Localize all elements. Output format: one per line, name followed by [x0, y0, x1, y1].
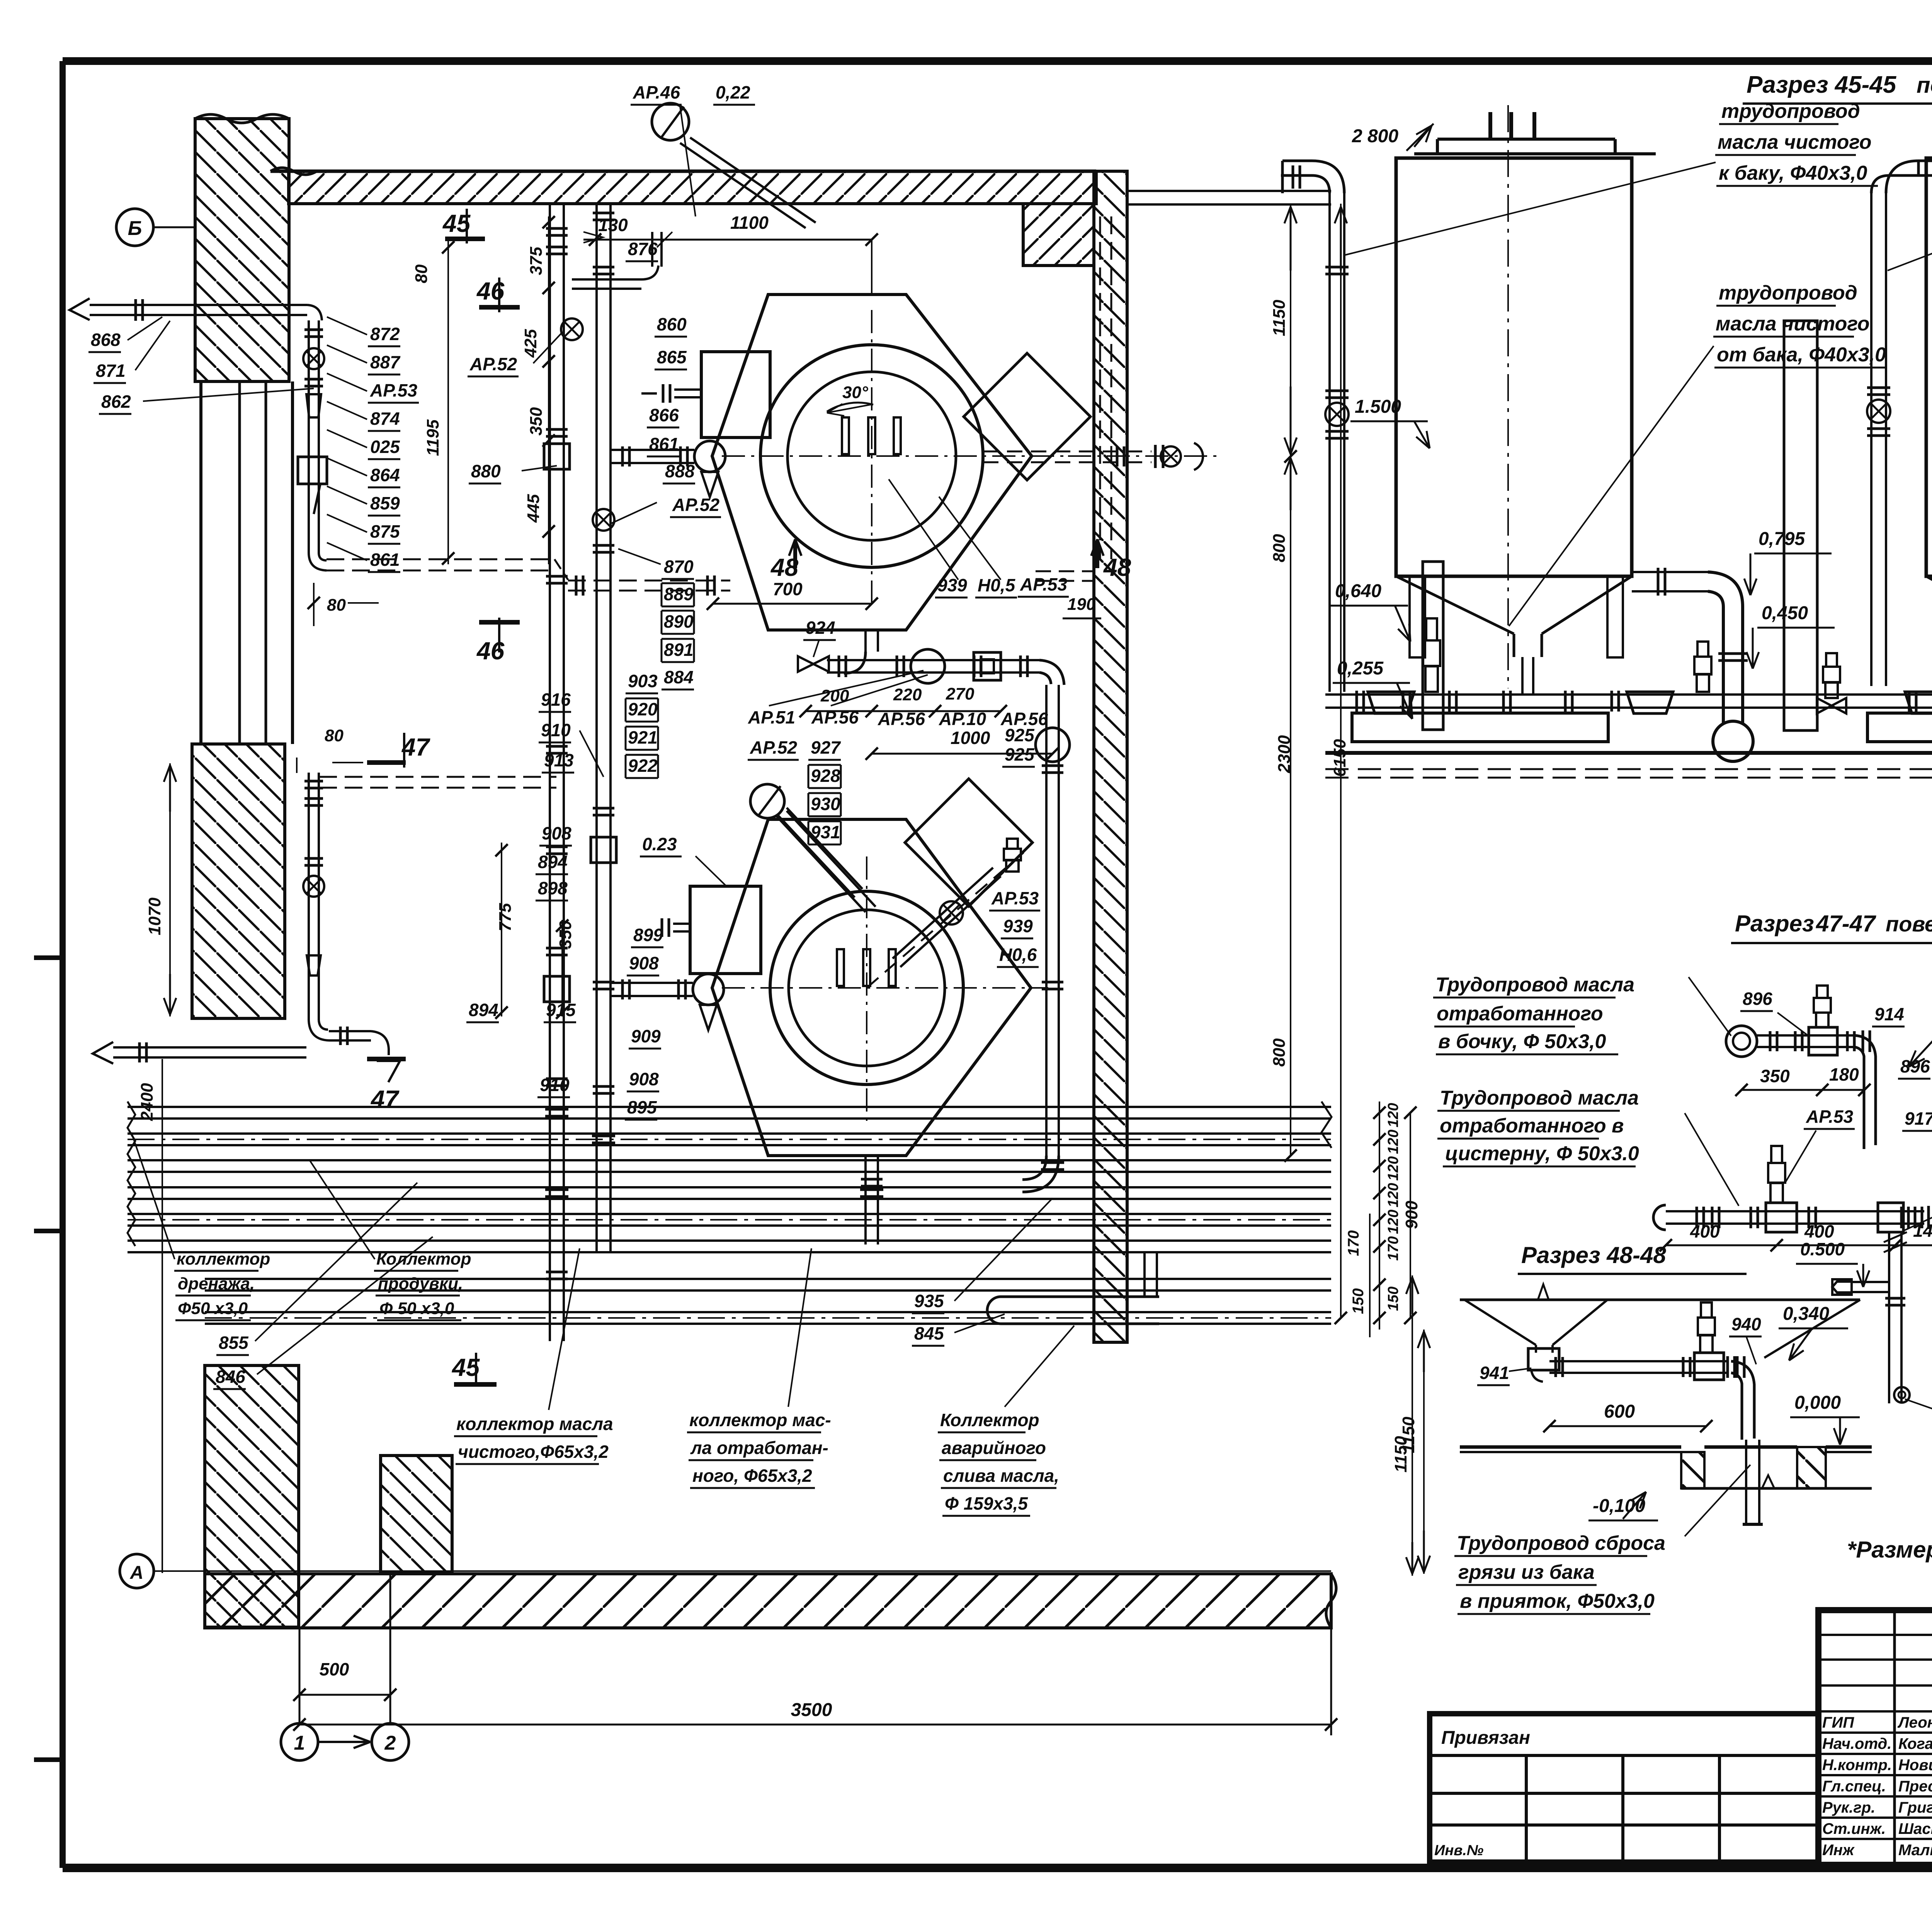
svg-text:350: 350 [527, 407, 546, 436]
svg-text:Разрез: Разрез [1735, 911, 1814, 936]
dim 500 between pillars [389, 1574, 391, 1723]
svg-text:Н.контр.: Н.контр. [1822, 1757, 1892, 1774]
svg-text:в бочку, Ф 50х3,0: в бочку, Ф 50х3,0 [1438, 1030, 1606, 1053]
svg-text:0,640: 0,640 [1335, 581, 1381, 601]
47-47 lower assembly [1653, 1205, 1666, 1230]
tank 1 support legs [1410, 576, 1425, 657]
pump tank1 tee and drops [1426, 618, 1437, 640]
svg-text:862: 862 [101, 392, 131, 412]
svg-text:350: 350 [556, 920, 575, 949]
tank1 funnel drop pipe [1521, 657, 1524, 695]
pipe 0795 elbow [1632, 571, 1708, 573]
section marker 45 top [466, 209, 468, 243]
svg-text:864: 864 [370, 465, 400, 485]
svg-text:1: 1 [294, 1732, 305, 1754]
svg-text:924: 924 [806, 618, 835, 638]
svg-text:А: А [130, 1563, 144, 1583]
svg-text:931: 931 [811, 822, 840, 842]
svg-text:909: 909 [631, 1026, 661, 1046]
riser tank2 pipe [1870, 193, 1872, 686]
svg-text:трудопровод: трудопровод [1719, 282, 1857, 304]
riser group down to bundle [549, 1103, 551, 1341]
machine 1 centerline extension [1068, 455, 1217, 457]
svg-text:Григорьян: Григорьян [1898, 1799, 1932, 1816]
section marker 47 top [403, 733, 405, 768]
svg-text:891: 891 [664, 640, 694, 660]
svg-text:АР.52: АР.52 [469, 354, 517, 374]
tee block riser m2 [544, 976, 570, 1002]
svg-text:875: 875 [370, 521, 400, 541]
svg-text:910: 910 [541, 720, 571, 740]
svg-text:Ф50 х3,0: Ф50 х3,0 [178, 1299, 248, 1318]
svg-text:47: 47 [401, 733, 431, 761]
section marker 46 bottom [498, 618, 500, 652]
privyazan box [1430, 1714, 1818, 1862]
riser tank2 valve [1867, 400, 1890, 423]
hidden pipe 861 dashed [327, 558, 554, 560]
machine2 drain to bundle [864, 1156, 867, 1245]
svg-text:400: 400 [1690, 1221, 1720, 1241]
svg-text:922: 922 [628, 756, 658, 776]
svg-text:аварийного: аварийного [942, 1438, 1046, 1458]
equip box 865 [701, 352, 770, 438]
machine 1 hexagon and circles [712, 295, 1032, 630]
svg-text:Шась: Шась [1898, 1820, 1932, 1837]
axis circle B [116, 209, 153, 246]
section marker 48 left [793, 541, 797, 568]
48-48 elbow fitting [1528, 1348, 1559, 1370]
svg-text:повернуто: повернуто [1917, 73, 1932, 98]
pipe 914 bottom-left [113, 1046, 306, 1049]
tank 1 funnel [1396, 576, 1514, 634]
svg-text:884: 884 [664, 667, 694, 687]
wall small pillar hatched [381, 1456, 452, 1573]
svg-text:910: 910 [540, 1075, 570, 1095]
svg-text:855: 855 [219, 1333, 249, 1353]
svg-text:АР.10: АР.10 [939, 709, 986, 729]
svg-text:915: 915 [546, 1000, 576, 1020]
svg-text:ла отработан-: ла отработан- [690, 1438, 828, 1458]
svg-text:894: 894 [538, 852, 568, 872]
svg-text:913: 913 [544, 750, 574, 770]
svg-text:894: 894 [469, 1000, 498, 1020]
valve with reducer middle [1817, 698, 1832, 713]
machine 2 upper valve assembly 939 [893, 868, 993, 958]
svg-text:935: 935 [914, 1291, 944, 1311]
svg-text:0,255: 0,255 [1337, 658, 1384, 679]
pipe bundle horizontal collectors [128, 1106, 1331, 1108]
bundle dash centerlines [128, 1139, 1331, 1140]
svg-text:АР.53: АР.53 [991, 888, 1039, 908]
svg-text:1070: 1070 [145, 897, 164, 935]
svg-text:6150: 6150 [1330, 739, 1349, 777]
svg-text:888: 888 [665, 461, 695, 481]
tank 2 funnel [1926, 576, 1932, 634]
svg-text:отработанного в: отработанного в [1440, 1115, 1624, 1137]
48-48 hatch blocks [1681, 1452, 1704, 1488]
svg-text:120: 120 [1385, 1130, 1401, 1154]
svg-text:Б: Б [128, 217, 142, 240]
47-47 vertical drop [1888, 1232, 1890, 1403]
riser 862 down from elbow [307, 305, 322, 320]
svg-text:слива масла,: слива масла, [943, 1466, 1059, 1486]
svg-text:889: 889 [664, 584, 694, 604]
pump bodies [1368, 692, 1414, 713]
svg-text:845: 845 [914, 1323, 944, 1343]
svg-text:Малюга: Малюга [1898, 1842, 1932, 1859]
svg-text:928: 928 [811, 766, 840, 786]
svg-text:220: 220 [893, 685, 922, 704]
svg-text:861: 861 [370, 550, 400, 570]
svg-text:Инж: Инж [1822, 1842, 1855, 1859]
machine 2 hidden diagonal [867, 852, 1024, 988]
svg-text:908: 908 [629, 953, 659, 973]
svg-text:870: 870 [664, 557, 694, 577]
svg-text:775: 775 [496, 903, 515, 931]
tank 1 bolts [1488, 112, 1492, 139]
svg-text:939: 939 [937, 575, 967, 595]
svg-text:120: 120 [1385, 1183, 1401, 1207]
left middle pipe 911 assembly [308, 773, 310, 1020]
47-47 bottom circle [1894, 1387, 1910, 1403]
svg-text:масла чистого: масла чистого [1716, 313, 1870, 335]
svg-text:130: 130 [598, 215, 628, 235]
svg-text:АР.53: АР.53 [370, 380, 418, 400]
floor band bottom hatched [205, 1574, 1331, 1628]
svg-text:коллектор масла: коллектор масла [456, 1414, 613, 1434]
svg-text:2 800: 2 800 [1352, 126, 1398, 146]
svg-text:Гл.спец.: Гл.спец. [1822, 1778, 1886, 1795]
svg-text:874: 874 [370, 409, 400, 429]
svg-text:2400: 2400 [138, 1083, 156, 1121]
48-48 tee valve [1694, 1353, 1724, 1380]
section marker 45 bottom [454, 1382, 497, 1387]
svg-text:270: 270 [946, 684, 975, 703]
svg-text:АР.51: АР.51 [748, 707, 795, 727]
svg-text:903: 903 [628, 671, 658, 691]
svg-text:921: 921 [628, 727, 658, 747]
48-48 right elbow down [1726, 1356, 1729, 1378]
48-48 tank bottom line [1460, 1299, 1860, 1301]
svg-text:АР.52: АР.52 [750, 737, 798, 758]
machine 2 hexagon and circles [712, 819, 1031, 1156]
riser tee to gauge 876 [572, 278, 641, 281]
svg-text:80: 80 [325, 726, 344, 745]
svg-text:0,795: 0,795 [1759, 529, 1805, 549]
svg-text:2300: 2300 [1275, 735, 1294, 773]
svg-text:Трудопровод сброса: Трудопровод сброса [1457, 1532, 1665, 1554]
bundle break marks right [1321, 1102, 1332, 1148]
drain horizontal line w valves [827, 659, 1039, 661]
support column between tanks [1784, 321, 1817, 730]
bundle lower pipes [205, 1278, 1331, 1280]
48-48 horizontal pipe [1549, 1360, 1727, 1362]
svg-text:Новицкая: Новицкая [1898, 1757, 1932, 1774]
svg-text:500: 500 [320, 1659, 349, 1679]
svg-text:АР.53: АР.53 [1020, 574, 1068, 594]
svg-text:коллектор: коллектор [177, 1250, 270, 1268]
svg-text:1.500: 1.500 [1355, 397, 1401, 417]
tank 1 centerline [1507, 105, 1509, 688]
equip box 0.23 machine2 [690, 886, 761, 974]
hidden pipe short right of machine1 [1036, 570, 1094, 572]
svg-text:120: 120 [1385, 1210, 1401, 1234]
svg-text:АР.56: АР.56 [811, 707, 859, 727]
elbow to hidden pipe 861 [309, 553, 327, 570]
dim chain pipes 120x5 170 150 900 1150 [1379, 1102, 1380, 1330]
pipe top-left through wall [90, 304, 307, 306]
svg-text:Преснов: Преснов [1898, 1778, 1932, 1795]
fold tick left 1 [34, 955, 63, 960]
svg-text:Леонов: Леонов [1897, 1714, 1932, 1731]
svg-text:927: 927 [811, 737, 841, 758]
svg-text:чистого,Ф65х3,2: чистого,Ф65х3,2 [458, 1442, 609, 1462]
svg-text:грязи из бака: грязи из бака [1458, 1561, 1595, 1583]
svg-text:887: 887 [370, 352, 401, 372]
machine 2 pump circle [693, 974, 724, 1005]
svg-text:46: 46 [476, 637, 505, 665]
wall left strip middle column lines [199, 381, 202, 744]
svg-text:200: 200 [820, 686, 849, 705]
svg-text:повернуто: повернуто [1886, 912, 1932, 936]
machine 1 feed pipe [611, 449, 694, 451]
svg-text:876: 876 [628, 239, 658, 259]
svg-text:150: 150 [1350, 1288, 1367, 1314]
svg-text:*Размеры для справок: *Размеры для справок [1847, 1537, 1932, 1563]
svg-text:170: 170 [1385, 1236, 1401, 1261]
svg-text:896: 896 [1743, 989, 1772, 1009]
svg-text:865: 865 [657, 347, 687, 367]
machine 1 pump circle [694, 441, 725, 472]
48-48 pit bottom [1681, 1487, 1872, 1490]
svg-text:939: 939 [1003, 916, 1033, 936]
wall vertical strip right hatched [1094, 171, 1127, 1342]
svg-text:в прияток, Ф50х3,0: в прияток, Ф50х3,0 [1460, 1590, 1655, 1612]
svg-text:Разрез 45-45: Разрез 45-45 [1747, 72, 1897, 98]
47-47 side stub [1851, 1281, 1889, 1283]
svg-text:1000: 1000 [951, 728, 990, 748]
axis circle A [120, 1554, 154, 1588]
48-48 funnel [1464, 1300, 1536, 1345]
svg-text:Н0,6: Н0,6 [999, 945, 1037, 965]
tank 2 body [1926, 158, 1932, 576]
svg-text:871: 871 [96, 361, 126, 381]
svg-text:917: 917 [1905, 1108, 1932, 1129]
title block signature table verticals [1893, 1610, 1896, 1865]
fold tick left 3 [34, 1757, 63, 1762]
svg-text:925: 925 [1005, 744, 1035, 764]
svg-text:908: 908 [542, 823, 571, 843]
svg-text:АР.52: АР.52 [672, 495, 720, 515]
svg-text:45: 45 [451, 1353, 480, 1381]
svg-text:400: 400 [1804, 1221, 1834, 1241]
svg-text:47: 47 [370, 1085, 400, 1113]
svg-text:80: 80 [327, 596, 346, 615]
svg-text:700: 700 [773, 579, 803, 599]
svg-text:941: 941 [1480, 1363, 1509, 1383]
svg-text:0,000: 0,000 [1794, 1393, 1841, 1413]
svg-text:от бака, Ф40х3,0: от бака, Ф40х3,0 [1717, 344, 1886, 366]
drain elbow into bundle [1022, 1156, 1046, 1180]
ground line section45 [1325, 751, 1932, 755]
svg-text:0,450: 0,450 [1762, 603, 1808, 623]
svg-text:Трудопровод масла: Трудопровод масла [1435, 974, 1634, 996]
tank 1 top plate [1414, 152, 1656, 155]
svg-text:860: 860 [657, 314, 687, 334]
wall corner notch hatched [1023, 204, 1094, 266]
svg-text:цистерну, Ф 50х3.0: цистерну, Ф 50х3.0 [1445, 1142, 1639, 1165]
bundle crossing flanges [545, 1108, 568, 1111]
svg-text:Н0,5: Н0,5 [978, 575, 1016, 595]
gate valve 924 [798, 656, 813, 672]
svg-text:859: 859 [370, 493, 400, 513]
svg-text:350: 350 [1760, 1066, 1790, 1086]
svg-text:0,340: 0,340 [1783, 1304, 1829, 1324]
svg-text:Коган: Коган [1898, 1735, 1932, 1752]
47-47 upper assembly [1726, 1026, 1757, 1057]
svg-text:2: 2 [384, 1732, 396, 1754]
left riser pair 2 [595, 204, 598, 1103]
gauge circle AP46 [652, 103, 689, 140]
svg-text:425: 425 [521, 329, 540, 358]
machine 1 right hidden pipe [983, 451, 1151, 453]
support pillar left of tank1 [1423, 562, 1443, 730]
svg-text:600: 600 [1604, 1401, 1635, 1422]
drain elbow down right [1039, 660, 1064, 685]
riser1 valve AP52 [561, 318, 583, 340]
svg-text:1100: 1100 [730, 213, 769, 233]
svg-text:0.500: 0.500 [1800, 1239, 1845, 1259]
svg-text:908: 908 [629, 1069, 659, 1089]
svg-text:898: 898 [538, 878, 568, 898]
48-48 floor slab [1460, 1445, 1681, 1449]
svg-text:ГИП: ГИП [1822, 1714, 1854, 1731]
svg-text:880: 880 [471, 461, 501, 481]
hidden pipe pair vertical right of machine1 [1099, 216, 1101, 559]
svg-text:Разрез 48-48: Разрез 48-48 [1521, 1242, 1666, 1268]
tee block riser1 m1 [544, 444, 570, 469]
svg-text:Ст.инж.: Ст.инж. [1822, 1820, 1886, 1837]
svg-text:отработанного: отработанного [1437, 1003, 1603, 1025]
svg-text:Ф 50 х3,0: Ф 50 х3,0 [379, 1299, 454, 1318]
svg-text:940: 940 [1731, 1314, 1761, 1334]
svg-text:930: 930 [811, 794, 840, 814]
svg-text:800: 800 [1270, 1038, 1289, 1067]
svg-text:Трудопровод масла: Трудопровод масла [1440, 1087, 1639, 1109]
wall top band hatched [289, 171, 1096, 204]
svg-text:868: 868 [91, 330, 121, 350]
collector 845 rounded end pipe [987, 1297, 1159, 1324]
base plinth tank2 [1867, 713, 1932, 742]
svg-text:375: 375 [527, 247, 546, 275]
axis circle 1 [281, 1723, 318, 1760]
svg-text:025: 025 [370, 437, 400, 457]
tank 1 body [1396, 158, 1632, 576]
axis 1-2 link [318, 1741, 348, 1743]
svg-text:170: 170 [1345, 1230, 1362, 1256]
svg-text:1195: 1195 [423, 419, 442, 456]
svg-text:коллектор мас-: коллектор мас- [689, 1410, 831, 1430]
svg-text:895: 895 [627, 1097, 657, 1117]
svg-text:Инв.№: Инв.№ [1434, 1842, 1483, 1859]
svg-text:445: 445 [524, 494, 543, 523]
svg-text:1150: 1150 [1391, 1436, 1410, 1473]
machine 2 gauge circle 930 [750, 784, 784, 818]
svg-text:0,22: 0,22 [716, 82, 750, 102]
svg-text:145: 145 [1913, 1221, 1932, 1241]
svg-text:45: 45 [442, 209, 471, 237]
svg-text:150: 150 [1385, 1287, 1401, 1311]
svg-text:Привязан: Привязан [1441, 1728, 1530, 1748]
machine1 drain down [864, 630, 867, 652]
drain vertical to bundle [1045, 685, 1048, 1156]
svg-text:846: 846 [216, 1367, 245, 1387]
svg-text:Коллектор: Коллектор [376, 1250, 471, 1268]
svg-text:900: 900 [1402, 1200, 1421, 1229]
svg-text:АР.56: АР.56 [1000, 709, 1048, 729]
machine 2 feed pipe [611, 982, 693, 984]
svg-text:899: 899 [633, 925, 663, 945]
svg-text:47-47: 47-47 [1816, 911, 1876, 936]
svg-text:к баку, Ф40х3,0: к баку, Ф40х3,0 [1719, 162, 1867, 184]
svg-text:30°: 30° [842, 383, 868, 402]
svg-text:1150: 1150 [1270, 300, 1289, 336]
svg-text:46: 46 [476, 277, 505, 305]
svg-text:861: 861 [649, 434, 679, 454]
section marker 46 top [498, 278, 500, 312]
svg-text:800: 800 [1270, 534, 1289, 562]
dim chain right 1150 800 2300 6150 800 900 [1290, 204, 1291, 1156]
svg-text:0.23: 0.23 [642, 834, 677, 854]
left riser pair 1 [549, 204, 551, 1103]
riser tank1 valve [1325, 403, 1349, 426]
svg-text:трудопровод: трудопровод [1721, 100, 1860, 123]
svg-text:масла чистого: масла чистого [1718, 131, 1872, 153]
svg-text:АР.53: АР.53 [1806, 1107, 1854, 1127]
section marker 47 bottom [367, 1057, 406, 1061]
svg-text:190: 190 [1067, 595, 1096, 614]
wall pillar bottom-left hatched [205, 1365, 299, 1627]
svg-text:120: 120 [1385, 1103, 1401, 1127]
svg-text:180: 180 [1829, 1064, 1859, 1084]
svg-text:АР.56: АР.56 [878, 709, 925, 729]
riser tank1 left pipe [1328, 193, 1331, 692]
svg-text:916: 916 [541, 690, 571, 710]
svg-text:АР.46: АР.46 [633, 82, 680, 102]
svg-text:продувки,: продувки, [378, 1274, 463, 1293]
svg-text:872: 872 [370, 324, 400, 344]
svg-text:48: 48 [1103, 553, 1131, 581]
svg-text:866: 866 [649, 405, 679, 425]
pump cluster pipes horizontal [1325, 693, 1932, 696]
title block outer frame [1818, 1610, 1932, 1865]
svg-text:Коллектор: Коллектор [940, 1410, 1039, 1430]
svg-text:-0,100: -0,100 [1593, 1496, 1645, 1516]
bundle break marks left [128, 1102, 135, 1246]
svg-text:3500: 3500 [791, 1700, 832, 1720]
svg-text:914: 914 [1874, 1004, 1904, 1024]
fold tick left 2 [34, 1229, 63, 1233]
wall left strip lower hatched [192, 744, 285, 1018]
title block signature table rows [1818, 1634, 1932, 1636]
wall inner face lines right of strip [1127, 190, 1331, 192]
base plinth tank1 [1352, 713, 1608, 742]
svg-text:Ф 159х3,5: Ф 159х3,5 [945, 1493, 1028, 1514]
svg-text:920: 920 [628, 699, 658, 719]
svg-text:890: 890 [664, 611, 694, 632]
svg-text:80: 80 [412, 264, 431, 283]
svg-text:120: 120 [1385, 1156, 1401, 1181]
